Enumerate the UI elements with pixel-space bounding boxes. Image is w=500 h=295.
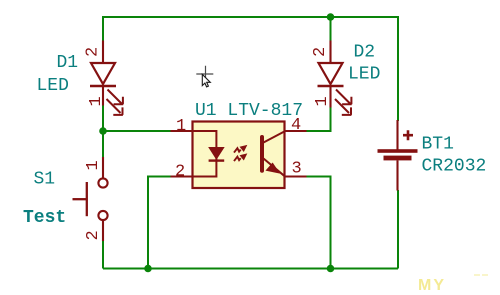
svg-text:1: 1 bbox=[87, 96, 106, 106]
U1 pin 4 stub bbox=[284, 130, 307, 132]
svg-text:BT1: BT1 bbox=[422, 135, 454, 155]
switch S1 bbox=[73, 157, 108, 241]
D2 emission arrow b bbox=[335, 99, 351, 115]
S1 pin 2 stub bbox=[102, 220, 104, 241]
svg-text:LED: LED bbox=[37, 76, 69, 96]
svg-text:2: 2 bbox=[311, 47, 330, 57]
wire U1 pin3 to bottom bus bbox=[306, 177, 331, 269]
BT1 top plate bbox=[378, 149, 418, 153]
watermark dashes bbox=[474, 274, 488, 276]
U1 internal LED cathode bar bbox=[209, 159, 225, 161]
svg-text:U1 LTV-817: U1 LTV-817 bbox=[195, 101, 303, 121]
U1 pin 1 stub bbox=[171, 130, 194, 132]
LED D1 bbox=[90, 41, 123, 115]
D2 triangle bbox=[319, 63, 343, 84]
svg-text:LED: LED bbox=[348, 65, 380, 85]
D1 triangle bbox=[91, 63, 115, 84]
D1 cathode bar bbox=[90, 85, 116, 87]
D2 emission arrow a bbox=[336, 90, 352, 105]
svg-text:1: 1 bbox=[313, 96, 332, 106]
U1 internal emitter LED bbox=[193, 131, 224, 177]
BT1 plus sign bbox=[403, 130, 413, 140]
U1 light arrow a bbox=[234, 146, 246, 153]
mouse crosshair cursor bbox=[196, 66, 213, 83]
U1 light arrow b bbox=[234, 154, 246, 161]
BT1 bottom plate bbox=[384, 156, 412, 161]
D2 pin 2 stub bbox=[329, 41, 331, 64]
wire top bus bbox=[103, 16, 398, 18]
U1 pin 3 stub bbox=[284, 175, 307, 177]
D2 pin 1 stub bbox=[329, 86, 331, 108]
svg-text:CR2032: CR2032 bbox=[422, 157, 487, 177]
U1 phototransistor bbox=[262, 131, 285, 176]
wire U1 pin2 to bottom bus bbox=[148, 177, 171, 269]
svg-text:S1: S1 bbox=[34, 170, 56, 190]
U1 transistor emitter arrowhead bbox=[266, 163, 279, 173]
S1 bottom contact circle bbox=[98, 211, 107, 220]
svg-text:2: 2 bbox=[84, 230, 103, 240]
wire left vertical to D1 anode bbox=[102, 16, 104, 41]
svg-text:MY: MY bbox=[418, 277, 446, 294]
wire bottom bus bbox=[103, 268, 398, 270]
svg-text:Test: Test bbox=[23, 208, 66, 228]
wire D1 cathode down to node A bbox=[102, 105, 104, 131]
U1 transistor collector bbox=[264, 131, 285, 142]
U1 transistor emitter bbox=[264, 159, 285, 177]
optocoupler U1 body bbox=[193, 122, 285, 189]
wire S1 pin2 down to bottom bus bbox=[102, 241, 104, 269]
junction bottom bus / U1 pin2 bbox=[144, 265, 152, 273]
svg-text:1: 1 bbox=[84, 160, 103, 170]
svg-text:2: 2 bbox=[84, 47, 103, 57]
wire BT1 minus to bottom bus bbox=[397, 190, 399, 269]
mouse arrow pointer bbox=[202, 74, 210, 87]
junction node top (D2 tap) bbox=[327, 13, 335, 21]
junction bottom bus / U1 pin3 bbox=[327, 265, 335, 273]
wire node A to U1 pin1 bbox=[103, 130, 171, 132]
D1 emission arrow a bbox=[108, 90, 124, 105]
wire right vertical to BT1 plus bbox=[397, 16, 399, 121]
U1 pin 2 stub bbox=[171, 175, 194, 177]
LED D2 bbox=[318, 41, 352, 115]
svg-text:D1: D1 bbox=[57, 53, 79, 73]
svg-text:3: 3 bbox=[292, 160, 302, 179]
U1 internal anode trace bbox=[193, 131, 216, 177]
svg-text:2: 2 bbox=[175, 163, 185, 182]
wire D2 anode feed bbox=[330, 16, 332, 41]
U1 transistor base bar bbox=[260, 137, 264, 171]
S1 actuator stem bbox=[73, 198, 87, 200]
svg-text:D2: D2 bbox=[354, 43, 376, 63]
S1 actuator bar bbox=[86, 182, 88, 216]
D1 emission arrow b bbox=[107, 99, 123, 115]
S1 top contact circle bbox=[98, 178, 107, 187]
wire node A to S1 pin1 bbox=[102, 131, 104, 158]
S1 pin 1 stub bbox=[102, 157, 104, 178]
U1 internal LED triangle bbox=[210, 148, 224, 159]
battery BT1 bbox=[378, 120, 418, 191]
BT1 pin + stub bbox=[396, 120, 398, 150]
svg-text:1: 1 bbox=[176, 117, 186, 136]
D1 pin 1 stub bbox=[102, 86, 104, 106]
wire D2 cathode to U1 pin4 bbox=[306, 107, 331, 131]
D2 cathode bar bbox=[318, 85, 344, 87]
junction node A (D1/S1/U1 pin1) bbox=[99, 127, 107, 135]
D1 pin 2 stub bbox=[102, 41, 104, 64]
BT1 pin - stub bbox=[396, 160, 398, 190]
